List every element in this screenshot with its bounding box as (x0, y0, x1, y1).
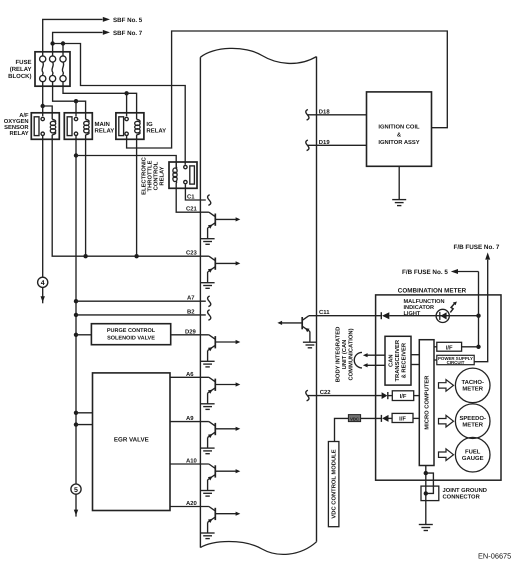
ground at ignition coil (392, 200, 406, 206)
svg-text:SOLENOID VALVE: SOLENOID VALVE (107, 336, 155, 342)
svg-text:EN-06675: EN-06675 (478, 552, 511, 561)
connector circle 5 (71, 484, 81, 494)
wire pin C22 to meter (307, 395, 382, 397)
arrow CAN lower (363, 363, 368, 367)
diode D2 at C22 (382, 392, 393, 399)
connector curl pin D18 (306, 110, 309, 121)
relay K4 electronic throttle control relay box (169, 162, 197, 188)
svg-text:SBF No. 7: SBF No. 7 (113, 30, 143, 37)
svg-text:A6: A6 (186, 371, 194, 378)
wire I/F no.3 to micro computer (413, 417, 419, 419)
svg-text:CONTROL: CONTROL (153, 161, 160, 190)
relay K3 IG relay box (116, 113, 144, 140)
transistor Q7 at pin A20 (208, 507, 241, 534)
wire fuse1 bottom to A/F relay split (42, 82, 44, 107)
svg-text:TACHO-: TACHO- (461, 379, 484, 386)
svg-text:C23: C23 (186, 250, 198, 257)
wire bus to EGR valve upper (76, 412, 93, 414)
wire main relay contact bus to ETC coil feed (75, 136, 77, 156)
fuse element 2 (50, 56, 56, 82)
svg-text:C21: C21 (186, 206, 198, 213)
svg-text:METER: METER (462, 421, 483, 428)
label BODY INTEGRATED UNIT (CAN COMMUNICATION) (335, 327, 355, 383)
fuse element 1 (40, 56, 46, 82)
svg-text:C11: C11 (319, 309, 330, 316)
wire ETC coil feed (76, 156, 176, 169)
svg-text:F/B FUSE No. 7: F/B FUSE No. 7 (454, 244, 500, 251)
svg-text:COMBINATION METER: COMBINATION METER (398, 287, 467, 294)
label A/F OXYGEN SENSOR RELAY (4, 112, 30, 137)
ground at Q5 at pin A9 emitter (201, 448, 215, 454)
ECM block left edge (199, 57, 201, 547)
wire purge valve to pin D29 (171, 334, 209, 336)
wire VDC module to diode D3 (335, 418, 349, 441)
relay K1 contact bar (34, 117, 39, 136)
wire fuse SBF1 top to SBF No.5 arrow (43, 19, 103, 56)
wire bus to EGR valve lower (76, 424, 93, 426)
wire ETC coil to pin C21 (176, 188, 209, 212)
wire A/F relay feed to contact (42, 106, 44, 116)
svg-text:CAN: CAN (387, 354, 394, 367)
relay K1 contact terminals (41, 117, 44, 135)
ground at Q8 emitter (303, 342, 317, 348)
meter drive arrow speedometer (439, 415, 454, 427)
svg-text:IGNITOR ASSY: IGNITOR ASSY (378, 139, 419, 146)
wire CAN to micro computer upper (411, 354, 419, 356)
svg-text:METER: METER (462, 386, 483, 393)
connector curl pin C1 (208, 195, 211, 206)
junction dot node switched supply to ETC coil (74, 153, 78, 157)
wire CAN to body integrated unit upper (367, 354, 385, 356)
meter drive arrow tachometer (439, 380, 454, 392)
svg-text:BLOCK): BLOCK) (8, 73, 31, 80)
wire fuse3 bottom to IG relay split (63, 82, 127, 94)
speedometer gauge (455, 404, 490, 439)
meter drive arrow fuel gauge (439, 449, 454, 461)
svg-text:COMMUNICATION): COMMUNICATION) (348, 328, 355, 380)
ground at Q7 at pin A20 emitter (201, 533, 215, 539)
wire A/F relay contact to circled 4 (42, 136, 44, 278)
VDC control module box (328, 442, 339, 527)
svg-text:RELAY: RELAY (9, 131, 28, 137)
wire pin A7 (76, 300, 206, 302)
label MALFUNCTION INDICATOR LIGHT (404, 299, 445, 317)
wire diode to lamp to F/B fuse node (389, 315, 478, 317)
wire pin D19 to ignition coil (307, 144, 367, 146)
wire F/B fuse No.7 feed to power supply circuit (474, 260, 488, 362)
wire A/F relay feed to coil (43, 106, 53, 119)
relay K3 contact terminals (125, 117, 128, 135)
svg-text:C1: C1 (187, 194, 195, 201)
lamp flash arrow (450, 302, 457, 313)
svg-text:VDC: VDC (350, 416, 359, 421)
svg-text:A7: A7 (187, 295, 195, 302)
ground at joint ground connector (419, 525, 433, 531)
svg-text:CIRCUIT: CIRCUIT (447, 360, 465, 365)
transistor Q8 at pin C11 (277, 316, 310, 343)
ECM block bottom torn-edge wave (200, 542, 316, 555)
wire F/B fuse No.5 feed (458, 272, 479, 347)
arrow to F/B fuse No.5 (451, 269, 458, 274)
wire CAN to micro computer lower (411, 364, 419, 366)
relay K2 coil (84, 119, 89, 135)
svg-text:JOINT GROUND: JOINT GROUND (443, 487, 487, 494)
relay K2 contact terminals (74, 117, 77, 135)
transistor Q5 at pin A9 (208, 422, 241, 449)
interface box I/F no.3 (392, 413, 413, 422)
svg-text:BODY INTEGRATED: BODY INTEGRATED (335, 327, 342, 383)
ECM block right edge (316, 57, 318, 542)
transistor Q6 at pin A10 (208, 464, 241, 491)
wire micro computer to power supply circuit (434, 359, 437, 361)
arc bundle CAN communication (354, 352, 362, 368)
svg-text:SBF No. 5: SBF No. 5 (113, 17, 143, 24)
wire EGR to pin A10 (170, 463, 209, 465)
micro computer box (419, 340, 434, 466)
wire pin D18 to ignition coil (307, 114, 367, 116)
svg-text:A20: A20 (186, 500, 198, 507)
svg-text:THROTTLE: THROTTLE (147, 160, 154, 191)
power supply circuit box (437, 355, 474, 365)
svg-text:VDC CONTROL MODULE: VDC CONTROL MODULE (331, 449, 338, 518)
wire CAN to body integrated unit lower (367, 364, 385, 366)
wire VDC tag to diode D3 (361, 417, 382, 419)
wire fuse2 bottom to main relay split (53, 82, 76, 102)
svg-text:D29: D29 (185, 328, 197, 335)
svg-text:IGNITION COIL: IGNITION COIL (378, 124, 420, 131)
svg-text:I/F: I/F (446, 344, 453, 351)
svg-text:I/F: I/F (400, 393, 407, 400)
purge control solenoid valve box (91, 324, 170, 345)
interface box I/F no.2 (392, 391, 413, 401)
svg-text:FUEL: FUEL (465, 448, 481, 455)
fuel gauge (455, 437, 490, 472)
interface box I/F no.1 (437, 342, 462, 351)
ground at Q2 at pin C23 emitter (201, 283, 215, 289)
EGR valve box (93, 373, 171, 511)
ground at Q6 at pin A10 emitter (201, 491, 215, 497)
relay K3 contact bar (119, 117, 124, 136)
junction dot node fuse3 top (61, 41, 65, 45)
svg-text:ELECTRONIC: ELECTRONIC (141, 156, 148, 194)
wire fuse2 top stub (52, 44, 54, 57)
svg-text:UNIT (CAN: UNIT (CAN (341, 340, 348, 370)
label MAIN RELAY (95, 121, 115, 134)
wire I/F no.1 to node (462, 346, 479, 348)
svg-text:A10: A10 (186, 458, 198, 465)
arrow to F/B fuse No.7 (485, 252, 490, 259)
transistor Q2 at pin C23 (208, 256, 241, 283)
svg-text:IG: IG (146, 121, 153, 128)
wire micro computer to joint ground (425, 466, 427, 525)
transistor Q3 at pin D29 (208, 335, 241, 362)
ground at Q3 at pin D29 emitter (201, 361, 215, 367)
wire pin C11 to malfunction indicator diode (309, 315, 381, 317)
relay K1 coil (50, 119, 55, 135)
label ELECTRONIC THROTTLE CONTROL RELAY (141, 156, 166, 194)
wire fuse3 top stub (62, 44, 64, 57)
label IG RELAY (146, 121, 166, 134)
svg-text:D19: D19 (319, 139, 331, 146)
svg-text:CONNECTOR: CONNECTOR (443, 493, 481, 500)
relay K3 coil (135, 119, 140, 135)
diode D1 malfunction indicator (381, 312, 389, 319)
wire bus to purge valve (76, 334, 91, 336)
arrow below circled 4 (41, 287, 45, 303)
label JOINT GROUND CONNECTOR (443, 487, 487, 501)
fuse element 3 (60, 56, 66, 82)
svg-text:GAUGE: GAUGE (462, 455, 484, 462)
junction dot bus at purge valve (74, 333, 78, 337)
svg-text:(RELAY: (RELAY (10, 66, 32, 73)
connector curl pin C22 (306, 390, 309, 401)
connector curl pin B2 (208, 310, 211, 321)
svg-text:MICRO COMPUTER: MICRO COMPUTER (424, 375, 431, 430)
svg-text:B2: B2 (187, 308, 195, 315)
wire fuse SBF2 top to SBF No.7 arrow (53, 32, 103, 43)
svg-text:A9: A9 (186, 415, 194, 422)
wire joint ground loop (426, 473, 434, 493)
junction dot bus at EGR upper (74, 411, 78, 415)
fuse block (relay block) box (35, 52, 70, 86)
wire IG relay feed to contact (126, 93, 128, 116)
diode D3 at VDC line (381, 415, 392, 422)
svg-text:I/F: I/F (399, 415, 406, 422)
svg-text:C22: C22 (320, 389, 332, 396)
lamp malfunction indicator light (436, 309, 449, 322)
svg-text:D18: D18 (319, 108, 331, 115)
wire main relay feed to coil (76, 101, 86, 119)
junction dot bus at B2 (74, 313, 78, 317)
VDC connector tag (348, 415, 360, 422)
connector curl pin A7 (208, 296, 211, 307)
svg-text:4: 4 (41, 280, 45, 287)
ignition coil and ignitor assy box (367, 92, 432, 166)
svg-text:RELAY: RELAY (95, 128, 115, 135)
relay K1 A/F oxygen sensor relay box (31, 113, 59, 140)
connector curl pin D19 (306, 140, 309, 151)
svg-text:EGR VALVE: EGR VALVE (114, 437, 149, 444)
svg-text:TRANSCEIVER: TRANSCEIVER (394, 339, 401, 381)
arrow to SBF No.7 (103, 30, 110, 35)
transistor Q4 at pin A6 (208, 377, 241, 404)
label FUSE (RELAY BLOCK) (8, 59, 31, 80)
svg-text:&: & (397, 131, 401, 138)
relay K4 contact terminals (184, 165, 187, 183)
junction dot node main relay feed (74, 99, 78, 103)
wire micro computer to I/F no.1 (434, 346, 437, 348)
relay K4 contact bar (190, 166, 195, 184)
ECM block top torn-edge wave (200, 48, 316, 63)
wire I/F no.2 to micro computer (414, 395, 420, 397)
wire IG relay feed to coil (127, 93, 137, 119)
svg-text:RELAY: RELAY (160, 166, 166, 185)
wire EGR to pin A6 (170, 376, 209, 378)
junction dot lamp to F/B fuse No.5 (476, 314, 480, 318)
svg-text:FUSE: FUSE (15, 59, 31, 66)
junction dot node IG relay feed (124, 91, 128, 95)
wire EGR to pin A20 (170, 506, 209, 508)
ground at Q4 at pin A6 emitter (201, 404, 215, 410)
relay K2 contact bar (67, 117, 72, 136)
svg-text:RELAY: RELAY (146, 128, 166, 135)
transistor Q1 at pin C21 (208, 212, 241, 239)
svg-text:5: 5 (74, 487, 78, 494)
wire IG relay coil down to C23 (136, 135, 138, 257)
wire main relay coil down to C23 (85, 135, 87, 257)
junction dot bus at A7 (74, 299, 78, 303)
wire EGR to pin A9 (170, 421, 209, 423)
svg-text:SPEEDO-: SPEEDO- (459, 415, 486, 422)
relay K2 main relay box (64, 113, 92, 140)
tachometer gauge (455, 368, 490, 403)
junction dot main coil on C23 (83, 254, 87, 258)
svg-text:PURGE CONTROL: PURGE CONTROL (107, 328, 156, 334)
junction dot bus at EGR lower (74, 422, 78, 426)
arrow below circled 5 (74, 494, 78, 516)
junction dot node A/F relay feed (41, 104, 45, 108)
arrow to SBF No.5 (103, 17, 110, 22)
wire ETC contact to pin C1 (185, 184, 205, 200)
wire main relay switched bus (75, 156, 77, 485)
combination meter box (376, 295, 501, 480)
arrow CAN upper (363, 353, 368, 357)
wire ignition coil to ground (398, 166, 400, 199)
junction dot joint ground lower (424, 491, 428, 495)
svg-text:F/B FUSE No. 5: F/B FUSE No. 5 (402, 269, 448, 276)
wire tie fuse2/fuse3 tops to ETC contact feed (53, 44, 186, 165)
ground at Q1 at pin C21 emitter (201, 239, 215, 245)
junction dot node fuse2 top (50, 41, 54, 45)
junction dot joint ground upper (424, 471, 428, 475)
CAN transceiver and receiver box (385, 336, 411, 385)
wire pin B2 (76, 314, 206, 316)
junction dot IG coil on C23 (134, 254, 138, 258)
wire A/F relay coil down to C23 (52, 135, 209, 257)
connector circle 4 (38, 277, 48, 287)
svg-text:& RECEIVER: & RECEIVER (400, 342, 407, 378)
relay K4 coil (173, 162, 177, 188)
junction dot I/F to F/B fuse No.5 (476, 345, 480, 349)
joint ground connector box (421, 486, 439, 501)
svg-text:MAIN: MAIN (95, 121, 110, 128)
wire IG relay contact to ignition coil top feed (127, 31, 448, 148)
wire main relay feed to contact (75, 101, 77, 116)
